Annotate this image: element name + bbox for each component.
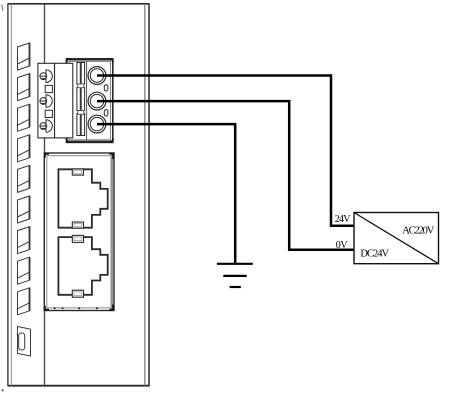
stray dot bottom-left [2, 389, 4, 391]
vent 9 [18, 288, 30, 315]
wire PE: terminal 3 to ground [97, 124, 235, 264]
housing bottom dark edge [69, 141, 111, 143]
vent 1 [18, 43, 30, 70]
contact bars group 1 [77, 63, 85, 85]
vent 4 [18, 135, 30, 162]
stray tick top-left [2, 5, 3, 12]
terminal housing U1 [67, 59, 113, 143]
power supply box PS1 [354, 213, 439, 264]
J1 bottom latch notch [72, 222, 83, 228]
frame corner marks [110, 154, 114, 159]
wire 0V: terminal 2 to power supply [97, 101, 354, 250]
vent 10 (din clip slot) [18, 327, 31, 357]
wire: right inner edge [144, 4, 146, 386]
plug body B [55, 63, 73, 138]
vents (louvers) on left strip [18, 43, 31, 356]
wire: top edge of device [8, 3, 149, 5]
J2 bottom latch notch [72, 290, 83, 297]
housing side tab 1 [104, 85, 108, 91]
vent 6 [18, 196, 30, 223]
bar gap tab 2 [78, 111, 84, 115]
svg-text:0V: 0V [336, 240, 349, 251]
keying square 1 [45, 85, 52, 92]
screw S2 [40, 95, 52, 108]
terminal screw circle 2 [88, 92, 106, 110]
vent 3 [18, 104, 30, 131]
screw S1 [40, 70, 52, 83]
svg-text:DC24V: DC24V [360, 249, 389, 260]
wire: right outer edge [148, 3, 150, 386]
J1 top latch notch [72, 169, 83, 175]
terminal screw circle 1 [88, 67, 106, 85]
RJ45 jack J2 profile [58, 237, 107, 295]
vent 2 [18, 74, 30, 101]
housing side tab 2 [104, 110, 108, 116]
screw S3 [40, 120, 52, 133]
wire: front face divider [44, 4, 46, 386]
port block outer frame [44, 153, 114, 311]
bar gap tab 1 [78, 84, 84, 88]
power supply diagonal [354, 213, 439, 264]
pin dots on bottom edge [54, 307, 98, 309]
device body outline [8, 3, 149, 386]
terminal screw circle 3 [88, 115, 106, 133]
RJ45 jack J1 profile [58, 169, 107, 227]
contact bars group 2 [77, 88, 85, 111]
RJ45 port block [44, 153, 114, 311]
ground symbol [217, 264, 253, 287]
housing corner marks [67, 59, 71, 63]
contact bars group 3 [77, 114, 85, 136]
vent 7 [18, 227, 30, 254]
plug body A (wire entry) [38, 63, 55, 138]
wire: bottom edge of device [8, 385, 149, 387]
vent 5 [18, 165, 30, 192]
J2 top latch notch [72, 235, 83, 242]
vent 8 [18, 257, 30, 284]
wire 24V: terminal 1 to power supply [97, 76, 354, 226]
wire: left inner edge [10, 4, 12, 386]
svg-text:24V: 24V [335, 214, 352, 225]
separator line before screws plate [86, 61, 88, 139]
svg-text:AC220V: AC220V [402, 226, 435, 237]
wire: left outer edge [7, 3, 9, 386]
keying square 2 [45, 110, 52, 117]
terminal block assembly [38, 59, 113, 143]
